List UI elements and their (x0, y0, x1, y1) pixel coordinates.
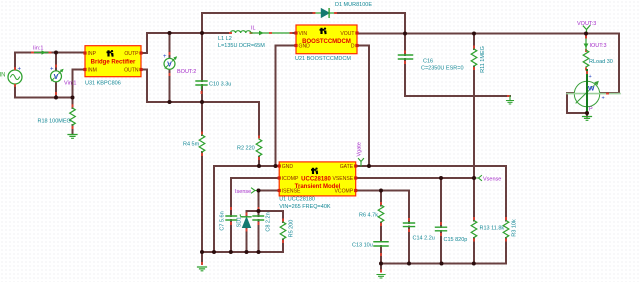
wire C16 leads and ground run (405, 34, 510, 97)
capacitor C15 (436, 222, 468, 243)
bridge rectifier U31 (83, 46, 142, 87)
wire VCOMP run (357, 191, 409, 264)
resistor R13 (471, 217, 504, 242)
wire UCC GND run (214, 166, 279, 252)
wire ISENSE run (259, 190, 280, 192)
wire R11 top lead (473, 34, 475, 50)
voltage probe Vgate (357, 142, 364, 166)
svg-text:IOUT:3: IOUT:3 (590, 43, 607, 49)
wire BOOST GND drop (276, 46, 297, 167)
svg-text:C15 820p: C15 820p (444, 237, 468, 243)
voltage probe Vsense (474, 176, 501, 183)
wire C8 leads (258, 211, 260, 252)
resistor R6 (359, 202, 384, 226)
capacitor C7 (220, 207, 237, 231)
svg-text:W: W (588, 86, 595, 93)
svg-text:C10 3.3u: C10 3.3u (209, 82, 231, 88)
wire bottom rail right (381, 263, 506, 265)
svg-text:R5 200: R5 200 (289, 220, 295, 238)
resistor R2 (237, 136, 262, 161)
svg-text:R6 4.7k: R6 4.7k (359, 213, 378, 219)
capacitor C14 (404, 218, 435, 242)
resistor R3 (503, 217, 517, 242)
svg-text:OUTP: OUTP (124, 51, 139, 57)
svg-text:BOUT:2: BOUT:2 (177, 69, 196, 75)
ground below left rail (198, 262, 207, 271)
wire R5 leads (282, 211, 284, 252)
svg-text:U1 UCC28180: U1 UCC28180 (279, 197, 315, 203)
wire load branch (585, 34, 587, 38)
svg-text:GATE: GATE (340, 164, 354, 170)
svg-text:Vin:1: Vin:1 (64, 81, 76, 87)
svg-text:UCC28180: UCC28180 (301, 177, 331, 183)
capacitor C16 (399, 51, 464, 72)
svg-text:C7 5.6n: C7 5.6n (220, 211, 226, 230)
wire bus y33 to BOOST VIN (147, 32, 296, 34)
resistor R11 (471, 46, 486, 73)
svg-text:+: + (602, 96, 605, 102)
ground below wattmeter (583, 117, 592, 121)
wire Vin meter top lead (55, 53, 57, 72)
svg-text:Vgate: Vgate (357, 142, 363, 156)
svg-text:C13 10u: C13 10u (352, 243, 373, 249)
svg-text:C8 2.2n: C8 2.2n (266, 212, 272, 231)
svg-text:P: P (589, 107, 593, 113)
wire ISENSE drop and row (247, 191, 284, 212)
svg-text:ICOMP: ICOMP (282, 176, 299, 182)
svg-text:VIN=265 FREQ=40K: VIN=265 FREQ=40K (279, 204, 331, 210)
svg-text:+: + (50, 67, 54, 73)
svg-text:Transient Model: Transient Model (295, 184, 341, 190)
svg-text:Isense: Isense (235, 189, 251, 195)
svg-text:L=135U DCR=65M: L=135U DCR=65M (218, 43, 265, 49)
svg-text:INP: INP (88, 51, 97, 57)
capacitor C13 (352, 242, 388, 256)
svg-text:R2 220: R2 220 (237, 146, 255, 152)
wire R13 leads (473, 178, 475, 264)
svg-text:R13 11.8k: R13 11.8k (480, 226, 505, 232)
current probe IOUT:3 (584, 36, 607, 53)
wire VIN bottom rail (15, 84, 73, 98)
wire BOOST D to gate (357, 46, 369, 167)
svg-text:VIN: VIN (0, 73, 6, 79)
wire INM loop (73, 70, 86, 98)
wire GATE run to R3 (357, 166, 506, 221)
wire wattmeter bottom and left loop (567, 93, 587, 117)
resistor R5 (280, 219, 294, 244)
wire VIN top to bridge INP (15, 53, 85, 71)
boost converter U21 (294, 25, 358, 62)
svg-text:RLoad 30: RLoad 30 (589, 59, 613, 65)
svg-text:VOUT:3: VOUT:3 (577, 21, 596, 27)
wire R18 leads (72, 98, 74, 134)
svg-text:R11 1MEG: R11 1MEG (480, 46, 486, 73)
inductor L1 (218, 31, 265, 49)
wire R4 leads (201, 102, 203, 252)
svg-text:U21 BOOSTCCMDCM: U21 BOOSTCCMDCM (295, 56, 351, 62)
svg-text:Iin:1: Iin:1 (33, 46, 43, 52)
svg-text:GND: GND (282, 164, 294, 170)
node junction dots (54, 31, 589, 266)
svg-text:OUTN: OUTN (124, 68, 139, 74)
svg-text:R18 100MEG: R18 100MEG (38, 119, 71, 125)
wire bottom rail left (202, 252, 283, 264)
voltmeter Vin:1 (50, 65, 76, 96)
svg-text:L1 L2: L1 L2 (218, 36, 232, 42)
svg-text:Vsense: Vsense (483, 177, 501, 183)
svg-text:VIN: VIN (299, 31, 308, 37)
current probe Iin:1 (31, 46, 52, 55)
wire SD1 leads (246, 211, 248, 252)
source VIN (0, 67, 22, 87)
svg-text:BOOSTCCMDCM: BOOSTCCMDCM (302, 39, 351, 45)
diode D1 (313, 2, 373, 17)
wire R6 C13 branch (380, 191, 382, 272)
svg-text:+: + (18, 67, 22, 73)
svg-text:R4 5m: R4 5m (183, 142, 200, 148)
current probe Isense (235, 188, 259, 195)
svg-text:R3 10k: R3 10k (512, 219, 518, 237)
svg-text:U31 KBPC806: U31 KBPC806 (85, 81, 121, 87)
svg-text:VOUT: VOUT (340, 31, 354, 37)
resistor R18 (38, 104, 76, 129)
ground below R18 (68, 135, 77, 139)
resistor R4 (183, 132, 205, 157)
wire R3 bottom (505, 238, 507, 264)
svg-text:+: + (163, 54, 167, 60)
capacitor C8 (253, 207, 272, 232)
wire diode top rail (202, 13, 405, 34)
wire R11 to Vsense riser (473, 67, 475, 179)
wire OUTP to top node (141, 33, 147, 53)
svg-text:D1 MUR8100E: D1 MUR8100E (335, 2, 372, 8)
controller UCC28180 U1 (278, 162, 358, 210)
svg-text:VSENSE: VSENSE (333, 176, 354, 182)
svg-text:C=2350U ESR=0: C=2350U ESR=0 (421, 66, 464, 72)
svg-text:D: D (351, 44, 355, 50)
svg-text:IL: IL (251, 26, 256, 32)
svg-text:INM: INM (88, 68, 97, 74)
wattmeter W (567, 70, 620, 113)
capacitor C10 (196, 81, 231, 94)
wire C10 leads (201, 33, 203, 102)
wire R2 leads (258, 102, 260, 166)
svg-text:SD1: SD1 (237, 217, 243, 228)
wire VSENSE run (357, 177, 474, 179)
voltage probe VOUT:3 (577, 21, 596, 34)
resistor RLoad (583, 50, 613, 71)
wire BOUT meter leads (169, 33, 171, 102)
svg-text:C14 2.2u: C14 2.2u (413, 236, 435, 242)
current probe IL (251, 26, 293, 36)
wire ICOMP to C7 (231, 178, 279, 252)
svg-text:+: + (589, 74, 592, 80)
voltmeter BOUT:2 (163, 52, 196, 76)
ground C16 small (507, 95, 514, 104)
ground below right rail (377, 270, 385, 279)
diode SD1 (237, 213, 252, 232)
wire OUTN return rail (141, 70, 259, 103)
svg-text:C16: C16 (423, 59, 433, 65)
svg-text:Bridge Rectifier: Bridge Rectifier (91, 60, 136, 66)
wire VOUT rail (357, 34, 619, 94)
wire Vin meter bottom lead (55, 82, 57, 98)
wire C15 leads (440, 178, 442, 264)
